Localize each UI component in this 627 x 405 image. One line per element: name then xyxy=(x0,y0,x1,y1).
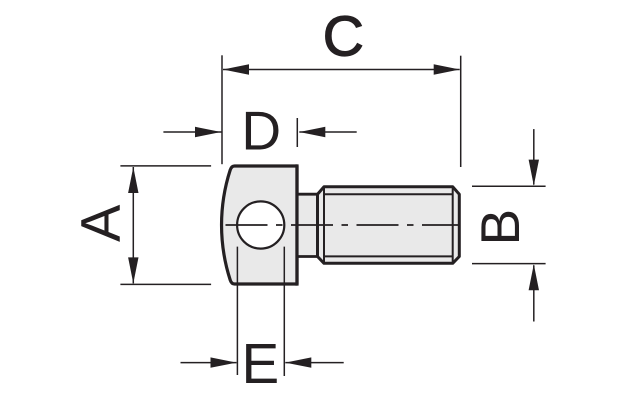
svg-text:E: E xyxy=(242,332,280,395)
svg-text:C: C xyxy=(323,5,364,69)
svg-text:A: A xyxy=(69,204,132,242)
svg-text:D: D xyxy=(241,100,281,162)
svg-text:B: B xyxy=(469,209,531,246)
